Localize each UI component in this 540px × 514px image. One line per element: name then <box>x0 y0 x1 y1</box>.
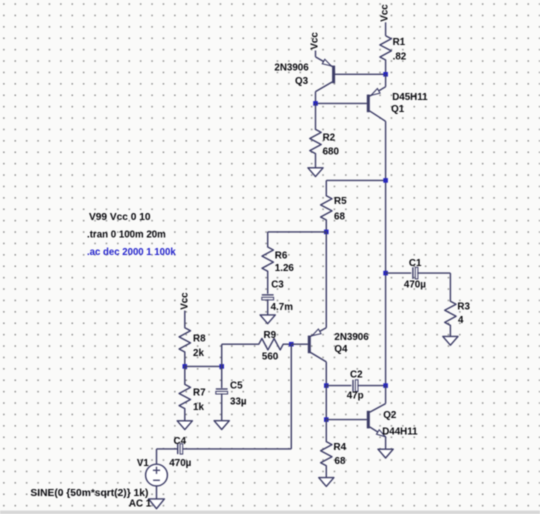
wire C1 right plate to R3 <box>417 272 450 274</box>
resistor R5 <box>321 180 332 232</box>
svg-text:D45H11: D45H11 <box>392 92 428 103</box>
ground below R2 <box>308 168 323 177</box>
wire Q1 base to Q3 collector <box>316 102 367 104</box>
svg-text:47p: 47p <box>347 391 364 402</box>
wire Vcc flag to R1 top <box>385 22 387 36</box>
wire C2 node down to Q2 base node <box>325 386 327 420</box>
transistor Q4 base bar <box>308 336 311 354</box>
wire C5 to ground <box>221 393 223 420</box>
wire Q1 emitter up to node <box>385 74 387 87</box>
ground below C5 <box>214 421 229 430</box>
capacitor C4 <box>178 444 183 454</box>
svg-text:68: 68 <box>334 211 345 222</box>
node junction R9/Q4 base/C4 wire <box>289 342 294 347</box>
node junction R5/R6/Q4 emitter <box>324 230 329 235</box>
capacitor C1 <box>413 267 418 279</box>
capacitor C3 <box>262 295 274 300</box>
svg-text:68: 68 <box>335 456 346 467</box>
svg-text:1.26: 1.26 <box>275 263 295 274</box>
wire Vcc flag to R8 <box>184 311 186 328</box>
wire Vcc flag to Q3 emitter <box>315 51 317 57</box>
wire output to C1 left plate <box>386 272 412 274</box>
wire to C2 left plate <box>326 385 351 387</box>
node junction Q3 collector/Q1 base/R2 <box>313 101 318 106</box>
svg-text:33µ: 33µ <box>230 397 247 408</box>
svg-text:4: 4 <box>458 315 464 326</box>
svg-text:Q3: Q3 <box>295 76 309 87</box>
ground below V1 <box>149 499 165 509</box>
arrow Q4 emitter (PNP) <box>312 329 321 336</box>
wire Q3 collector down <box>315 92 317 104</box>
resistor R1 <box>380 36 391 75</box>
capacitor C5 <box>216 389 228 394</box>
svg-text:2N3906: 2N3906 <box>274 63 309 74</box>
wire Q1 emitter diagonal <box>370 87 386 96</box>
svg-text:2k: 2k <box>193 348 204 359</box>
arrow Q3 emitter (PNP) <box>322 59 331 66</box>
svg-text:C3: C3 <box>271 280 284 291</box>
node junction C2 right/output/Q2 collector <box>383 383 388 388</box>
svg-text:Q1: Q1 <box>391 104 405 115</box>
wire Q4 base node down to C4 <box>290 344 292 449</box>
svg-text:R8: R8 <box>193 333 206 344</box>
ground below R7 <box>177 421 192 430</box>
svg-text:4.7m: 4.7m <box>271 302 294 313</box>
ground below R4 <box>319 478 334 487</box>
node junction R1/Q3 base/Q1 emitter <box>383 72 388 77</box>
wire Q3 base to R1 bottom node <box>335 73 386 75</box>
wire Q4 base <box>291 343 308 345</box>
wire Q2 base <box>326 419 367 421</box>
ground below R3 <box>443 336 458 345</box>
resistor R4 <box>321 420 332 478</box>
arrow Q2 emitter (NPN) <box>377 430 386 437</box>
wire Q1 collector diagonal <box>370 111 386 121</box>
wire Q3 collector diagonal <box>316 82 333 92</box>
ground below Q2 emitter <box>378 449 393 458</box>
wire down to C5 <box>221 366 223 388</box>
svg-text:1k: 1k <box>193 402 204 413</box>
svg-text:V99 Vcc 0 10: V99 Vcc 0 10 <box>89 212 151 223</box>
wire down to R3 <box>449 273 451 301</box>
wire C5 node up to R9 <box>221 344 223 366</box>
svg-text:.tran 0 100m 20m: .tran 0 100m 20m <box>87 229 166 240</box>
svg-text:R1: R1 <box>393 37 406 48</box>
ground below C3 <box>260 315 275 324</box>
svg-text:R5: R5 <box>334 196 347 207</box>
resistor R3 <box>445 301 456 336</box>
svg-text:560: 560 <box>262 352 279 363</box>
node junction R5/output <box>383 178 388 183</box>
resistor R6 <box>262 232 273 294</box>
wire C4 left plate to V1 <box>157 448 178 450</box>
wire R5 node down to Q4 emitter <box>325 232 327 328</box>
svg-text:R4: R4 <box>334 442 347 453</box>
wire Q2 emitter diagonal <box>370 427 386 437</box>
svg-text:Q2: Q2 <box>383 410 397 421</box>
wire V1 minus to ground <box>156 486 158 499</box>
wire R6 top to R5 bottom <box>268 231 327 233</box>
wire C4 right plate run <box>183 448 292 450</box>
svg-text:C2: C2 <box>350 370 363 381</box>
svg-text:R3: R3 <box>457 301 470 312</box>
node junction C1 tap on output <box>383 271 388 276</box>
resistor R9 <box>222 339 292 350</box>
transistor Q3 base bar <box>332 66 335 84</box>
wire Q2 collector up <box>385 386 387 404</box>
svg-text:.ac dec 2000 1 100k: .ac dec 2000 1 100k <box>87 247 176 258</box>
svg-text:R7: R7 <box>193 387 206 398</box>
wire Q2 collector diagonal <box>370 404 386 413</box>
wire R5 top to output node <box>326 179 385 181</box>
svg-text:680: 680 <box>323 147 340 158</box>
svg-text:D44H11: D44H11 <box>382 426 418 437</box>
wire down to V1 plus <box>156 449 158 464</box>
svg-text:Vcc: Vcc <box>380 4 391 22</box>
svg-text:V1: V1 <box>137 458 150 469</box>
wire Q4 collector diagonal <box>310 352 326 362</box>
svg-text:Vcc: Vcc <box>180 292 191 310</box>
svg-text:Q4: Q4 <box>334 344 348 355</box>
wire Q2 emitter down <box>385 437 387 449</box>
voltage source V1 <box>146 464 168 486</box>
svg-text:R2: R2 <box>323 132 336 143</box>
svg-text:C5: C5 <box>230 380 243 391</box>
svg-text:AC 1: AC 1 <box>129 498 152 509</box>
svg-text:2N3906: 2N3906 <box>334 332 369 343</box>
transistor Q1 base bar <box>367 95 370 113</box>
transistor Q2 base bar <box>367 411 370 429</box>
arrow Q1 emitter (PNP) <box>371 89 380 96</box>
resistor R8 <box>179 327 190 366</box>
capacitor C2 <box>353 380 358 392</box>
wire Q4 emitter diagonal <box>310 328 326 337</box>
svg-text:R9: R9 <box>264 330 277 341</box>
svg-text:470µ: 470µ <box>169 458 191 469</box>
wire C3 to ground <box>267 299 269 315</box>
svg-text:Vcc: Vcc <box>309 32 320 50</box>
wire R8/R7 node to C5 node <box>185 365 222 367</box>
node junction Q2 base/R4 top <box>324 417 329 422</box>
resistor R7 <box>179 366 190 420</box>
svg-text:R6: R6 <box>275 250 288 261</box>
node junction R8/R7/C5 wire <box>183 364 188 369</box>
svg-text:470µ: 470µ <box>404 280 426 291</box>
wire C2 right plate to output <box>357 385 385 387</box>
node junction Q4 collector/C2 left/R4 <box>324 383 329 388</box>
wire output node vertical <box>385 121 387 385</box>
node junction C5 top <box>219 364 224 369</box>
wire Q3 emitter diagonal <box>316 57 333 67</box>
resistor R2 <box>310 103 321 167</box>
svg-text:.82: .82 <box>393 52 407 63</box>
wire Q4 collector down <box>325 362 327 386</box>
